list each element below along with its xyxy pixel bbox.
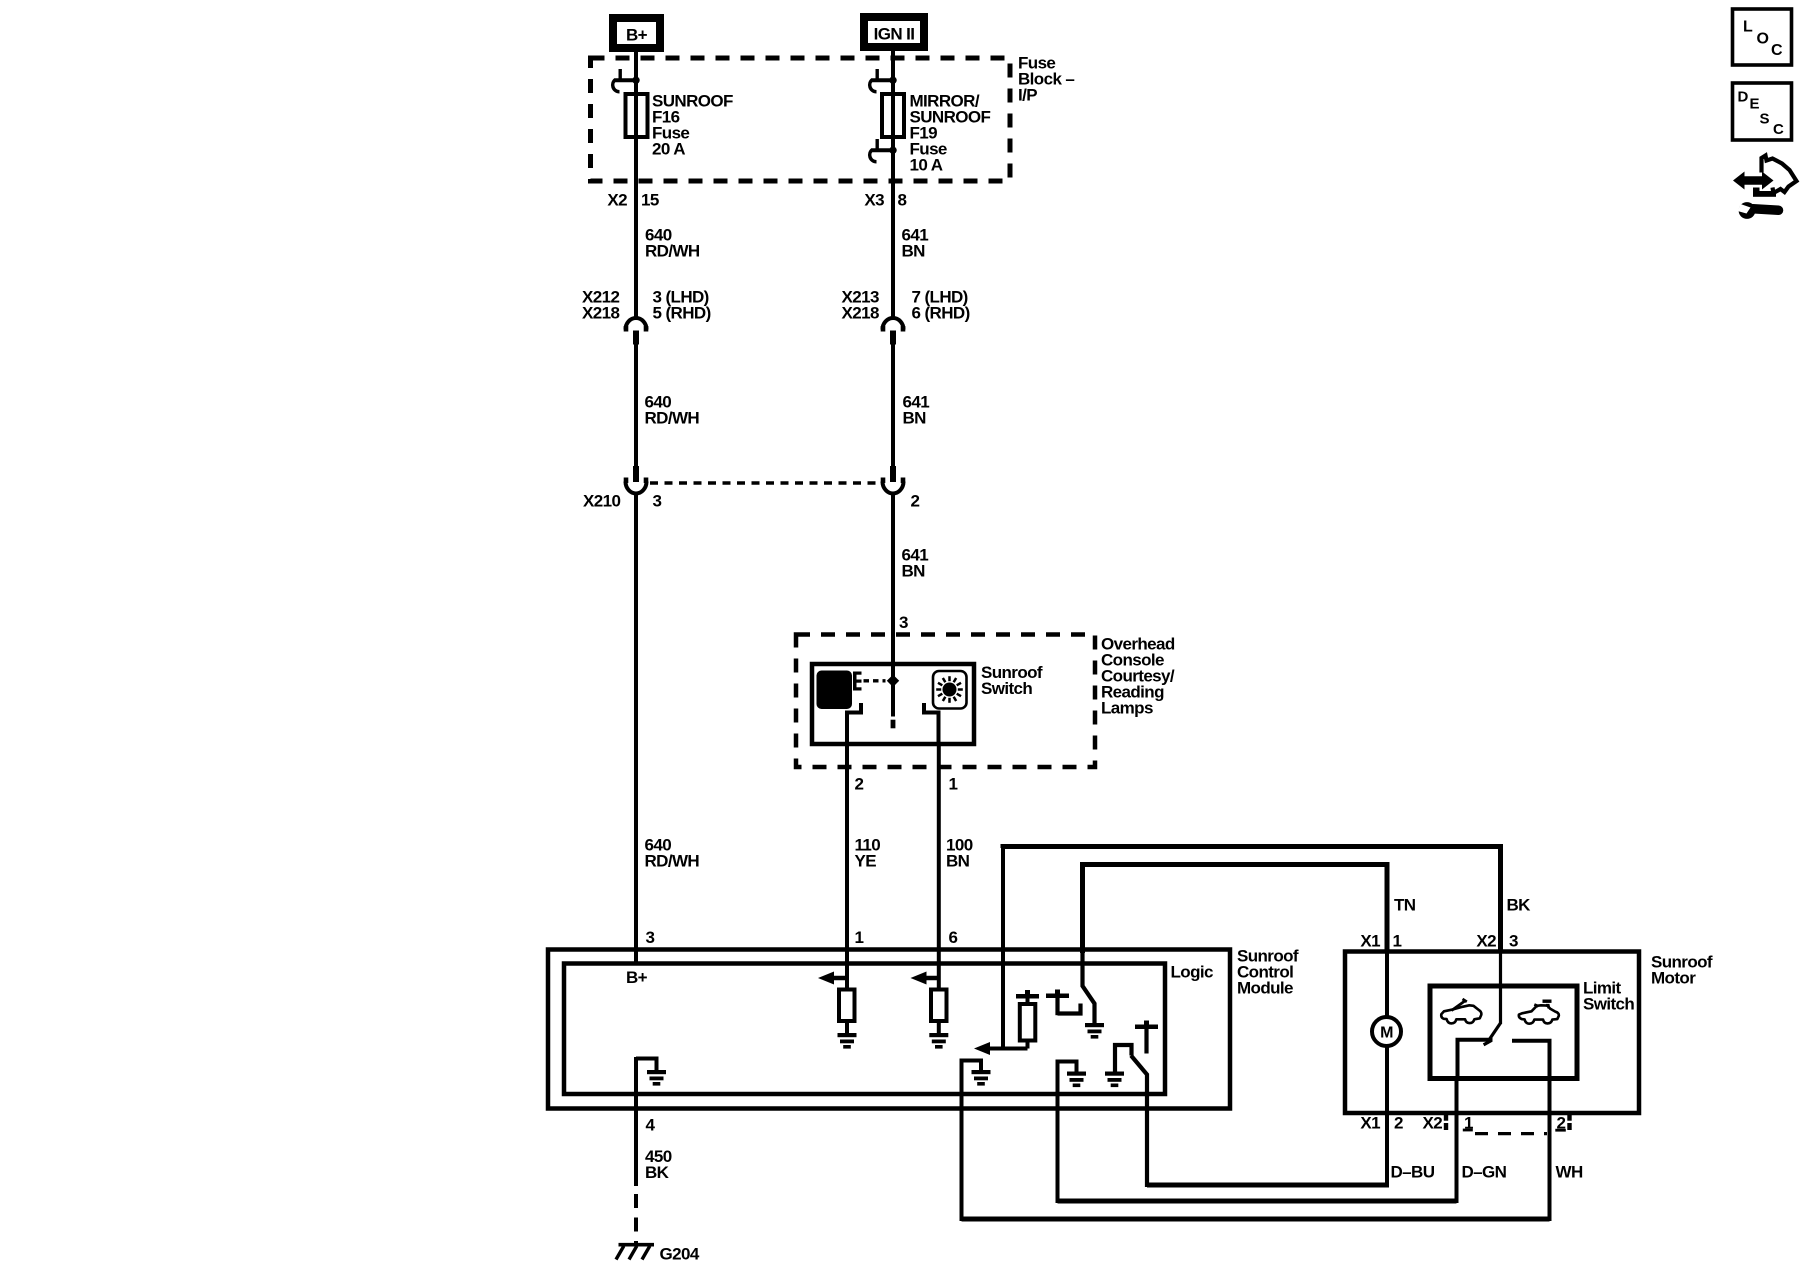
sunroof motor box [1345, 952, 1639, 1114]
svg-text:C: C [1771, 42, 1783, 59]
svg-text:YE: YE [855, 852, 877, 871]
svg-text:RD/WH: RD/WH [645, 241, 700, 260]
svg-text:O: O [1757, 31, 1769, 48]
input arrow on pin 1 wire [818, 972, 834, 985]
ground (below R1) [838, 1033, 857, 1037]
power feed IGN II [860, 13, 928, 51]
svg-text:3: 3 [1509, 932, 1518, 951]
module internal ground feed (pin 4) [636, 1057, 657, 1186]
svg-text:BK: BK [1507, 896, 1532, 915]
svg-text:BN: BN [902, 241, 926, 260]
svg-text:BN: BN [946, 852, 970, 871]
dashed tie between X210 halves [650, 481, 880, 485]
svg-text:IGN II: IGN II [874, 25, 915, 44]
svg-text:X218: X218 [842, 304, 879, 323]
svg-text:2: 2 [1394, 1114, 1403, 1133]
power feed B+ [609, 14, 664, 52]
svg-text:8: 8 [898, 191, 907, 210]
LOC legend box [1733, 9, 1792, 65]
bus clip at fuse F19 (bottom) [876, 139, 879, 149]
wire TN loop [1083, 865, 1388, 954]
wire 110 YE [845, 744, 849, 991]
svg-text:2: 2 [911, 492, 920, 511]
svg-text:3: 3 [646, 928, 655, 947]
svg-text:10 A: 10 A [910, 156, 943, 175]
svg-text:15: 15 [641, 191, 659, 210]
svg-text:E: E [1750, 96, 1760, 113]
wire IGN II feed through fuse F19 [891, 50, 895, 320]
wire R2 to ground [937, 1021, 941, 1034]
resistor R3 (sense pull-up) [1026, 998, 1030, 1006]
resistor R2 (pin 6 pull) [931, 990, 947, 1022]
svg-text:B+: B+ [626, 968, 648, 987]
svg-text:X210: X210 [583, 492, 620, 511]
svg-text:X218: X218 [582, 304, 619, 323]
svg-text:D–GN: D–GN [1462, 1163, 1507, 1182]
wire R1 to ground [845, 1021, 849, 1034]
sunroof control module box [548, 950, 1230, 1109]
BK sense wire into module [988, 847, 1028, 1049]
svg-text:D–BU: D–BU [1391, 1163, 1435, 1182]
overhead console dashed box [796, 635, 1095, 768]
svg-text:TN: TN [1394, 896, 1416, 915]
connector X213/X218 (inline, right wire) [883, 318, 904, 330]
wire 640 RD/WH mid segment [634, 344, 638, 467]
svg-text:X1: X1 [1360, 932, 1380, 951]
svg-text:2: 2 [855, 775, 864, 794]
limit switch box [1430, 986, 1577, 1079]
svg-text:X2: X2 [607, 191, 627, 210]
wire motor to pin X1-2 [1385, 1046, 1389, 1188]
internal supply T (switch SW1 contact) [1046, 994, 1069, 999]
svg-text:5 (RHD): 5 (RHD) [653, 304, 711, 323]
ground (SW2 cup) [1105, 1072, 1124, 1076]
svg-text:Lamps: Lamps [1101, 699, 1153, 718]
bus clip at fuse F16 [619, 69, 622, 79]
svg-text:Switch: Switch [981, 679, 1032, 698]
svg-text:Switch: Switch [1583, 995, 1634, 1014]
svg-text:BK: BK [645, 1163, 670, 1182]
svg-text:M: M [1380, 1025, 1393, 1042]
ground (stub 2) [1067, 1072, 1086, 1076]
connector X210 (left wire) [633, 466, 639, 482]
svg-text:6: 6 [949, 928, 958, 947]
svg-text:C: C [1773, 121, 1784, 138]
svg-text:RD/WH: RD/WH [645, 409, 700, 428]
svg-text:G204: G204 [660, 1245, 700, 1264]
output stub 1 (to WH) with ground jog [962, 1059, 982, 1222]
ground (below SW1) [1085, 1023, 1104, 1027]
fuse F19 [882, 94, 904, 137]
motor M1 [1372, 1017, 1401, 1046]
ground (stub 1) [972, 1070, 991, 1074]
svg-text:1: 1 [1393, 932, 1402, 951]
resistor R1 (pin 1 pull) [839, 990, 855, 1022]
svg-text:X2: X2 [1476, 932, 1496, 951]
svg-text:Logic: Logic [1171, 963, 1213, 982]
SW1 hook contact [1058, 1004, 1081, 1014]
dashed actuator link [864, 679, 886, 682]
DESC legend box [1733, 83, 1792, 140]
svg-text:WH: WH [1556, 1163, 1583, 1182]
svg-text:X2: X2 [1423, 1114, 1443, 1133]
wire B+ feed through fuse F16 [634, 51, 638, 320]
fuse block I/P dashed box [591, 58, 1011, 181]
wire 450 BK dashed to ground [634, 1194, 638, 1246]
svg-text:4: 4 [646, 1116, 656, 1135]
ground (module pin 4 branch) [647, 1070, 666, 1074]
svg-text:1: 1 [949, 775, 958, 794]
switch SW1 blade (TN drive) [1083, 952, 1095, 1025]
svg-text:BN: BN [902, 562, 926, 581]
wire 100 BN [937, 744, 941, 991]
sunroof switch box [812, 664, 974, 744]
wire 641 BN segment to sunroof switch [891, 494, 895, 666]
navigation icon (double arrow / bent arrow / wrench) [1733, 172, 1774, 190]
switch SW2 blade (D-BU drive) [1131, 1056, 1147, 1188]
svg-text:20 A: 20 A [652, 140, 685, 159]
sunroof switch actuator block [817, 671, 853, 710]
svg-text:S: S [1760, 111, 1770, 128]
svg-text:X1: X1 [1360, 1114, 1380, 1133]
wire D-BU routing [1147, 1183, 1387, 1188]
wire WH routing [962, 1217, 1550, 1222]
sunroof switch wiper contact (E bracket) [853, 672, 857, 691]
svg-text:L: L [1743, 19, 1753, 36]
svg-text:Motor: Motor [1651, 969, 1696, 988]
internal supply T (SW2 contact) [1135, 1025, 1158, 1030]
car icon (sunroof closed) [1543, 1000, 1552, 1003]
svg-text:BN: BN [903, 409, 927, 428]
ground (below R2) [929, 1033, 948, 1037]
SW2 cup contact with ground [1115, 1045, 1132, 1072]
connector X212/X218 (inline, left wire) [626, 318, 647, 330]
wire 641 BN mid segment [891, 344, 895, 467]
switch pole contact dash [891, 720, 896, 729]
svg-text:3: 3 [653, 492, 662, 511]
chassis ground G204 [619, 1243, 655, 1247]
sense input arrow (BK wire) [974, 1042, 990, 1055]
wire X2-3 into limit switch [1499, 951, 1502, 1024]
svg-text:X3: X3 [864, 191, 884, 210]
internal supply T (above R3) [1016, 994, 1039, 999]
svg-text:D: D [1738, 89, 1749, 106]
junction diamond on pole wire [887, 675, 899, 687]
logic box [564, 964, 1165, 1095]
svg-text:B+: B+ [626, 26, 648, 45]
bus clip at fuse F19 (top) [876, 69, 879, 79]
fuse F16 [626, 94, 648, 137]
svg-text:1: 1 [855, 928, 864, 947]
svg-text:6 (RHD): 6 (RHD) [912, 304, 970, 323]
wire D-GN routing [1058, 1199, 1457, 1204]
switch pole wire (from pin 3) [891, 664, 895, 717]
limit switch contact to pin X2-2 [1512, 1041, 1550, 1080]
wire BK loop [1003, 847, 1501, 954]
svg-text:3: 3 [899, 613, 908, 632]
limit switch contact to pin X2-1 [1458, 1040, 1493, 1080]
output stub 2 (to D-GN) with ground jog [1058, 1060, 1077, 1204]
dashed X2 connector tie [1475, 1132, 1547, 1135]
limit switch blade [1487, 1023, 1501, 1043]
svg-text:RD/WH: RD/WH [645, 852, 700, 871]
wire X1-1 to motor [1385, 951, 1389, 1017]
svg-text:Module: Module [1237, 979, 1293, 998]
car icon (sunroof open) [1452, 999, 1467, 1011]
svg-text:I/P: I/P [1018, 86, 1037, 105]
input arrow on pin 6 wire [911, 972, 927, 985]
switch throw to pin 1 [924, 703, 939, 746]
sunroof switch illumination lamp [933, 671, 967, 709]
connector X210 (right wire) [890, 466, 896, 482]
wire 640 RD/WH long segment to module [634, 494, 638, 966]
switch throw to pin 2 [847, 703, 861, 746]
